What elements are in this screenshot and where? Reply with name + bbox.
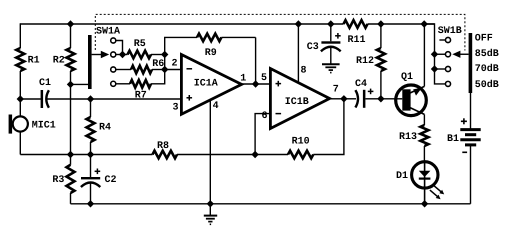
label C2 plus — [95, 170, 101, 172]
svg-text:5: 5 — [261, 73, 267, 84]
switch SW1A contact 3 — [111, 67, 116, 72]
svg-text:7: 7 — [333, 85, 339, 96]
capacitor C3 — [321, 41, 340, 43]
node pin8 rail junction — [295, 20, 302, 27]
wire Q1 emitter to rail — [423, 24, 425, 86]
microphone MIC1 — [13, 116, 28, 131]
label B1 minus — [462, 151, 467, 153]
node R4-C2 junction — [87, 151, 94, 158]
wire feedback riser right — [255, 37, 257, 84]
wire top supply rail — [20, 23, 343, 25]
wire SW1A contact2 to R5 — [116, 54, 127, 56]
resistor R3 — [67, 165, 75, 193]
svg-text:Q1: Q1 — [401, 72, 413, 83]
wire SW1B arrow to bar — [460, 53, 469, 55]
svg-text:R11: R11 — [348, 35, 366, 46]
node R2 rail junction — [67, 20, 74, 27]
transistor Q1 — [396, 85, 427, 116]
wire Q1 collector lead — [423, 114, 425, 125]
switch SW1A contact 4 — [111, 81, 116, 86]
wire SW1B contact 2 wire — [435, 53, 446, 55]
resistor R5 — [128, 51, 152, 59]
wire feedback riser left — [164, 37, 166, 54]
svg-text:C2: C2 — [105, 175, 117, 186]
wire R2 junction to SW1A bar — [71, 83, 89, 85]
wire IC1B pin 6 left — [255, 114, 270, 155]
svg-text:85dB: 85dB — [475, 48, 499, 60]
wire SW1A contact3 to R6 — [116, 69, 131, 71]
switch SW1B contact 2 — [445, 52, 450, 57]
wire R1 bottom lead — [19, 71, 21, 99]
wire R12 bottom lead — [380, 71, 382, 99]
svg-text:R13: R13 — [399, 132, 417, 143]
resistor R10 — [288, 151, 313, 159]
switch SW1A contact 1 — [111, 38, 116, 43]
svg-text:4: 4 — [213, 101, 219, 112]
op-amp IC1A — [181, 55, 241, 115]
wire R7 right lead up — [151, 55, 165, 84]
svg-text:R8: R8 — [157, 141, 169, 152]
svg-text:3: 3 — [173, 103, 179, 114]
wire SW1A bar to arrow — [92, 54, 102, 56]
resistor R13 — [420, 125, 428, 146]
resistor R12 — [377, 48, 385, 71]
wire R5 right lead — [151, 54, 165, 56]
svg-text:1: 1 — [240, 74, 246, 85]
svg-text:2: 2 — [172, 59, 178, 70]
wire R8 to pin6 node — [177, 154, 255, 156]
svg-text:IC1A: IC1A — [194, 79, 218, 90]
resistor R7 — [130, 80, 151, 88]
wire IC1B output — [329, 98, 344, 100]
switch SW1B wiper arrow — [452, 51, 460, 58]
node SW1B contact2 junction — [431, 51, 438, 58]
node C1-R1-MIC1 junction — [17, 95, 24, 102]
node R4 top junction — [87, 95, 94, 102]
capacitor C1 — [41, 90, 44, 108]
battery B1 — [460, 128, 480, 131]
wire MIC1 top lead — [19, 99, 21, 116]
node IC1A output junction — [252, 80, 259, 87]
wire IC1A output to IC1B pin5 — [241, 83, 271, 85]
switch SW1A wiper arrow — [101, 51, 109, 59]
wire C4 to Q1 base — [365, 98, 402, 100]
wire IC1A pin 4 to ground rail — [209, 100, 211, 204]
wire SW1A contact4 to R7 — [116, 83, 130, 85]
wire feedback top right — [221, 36, 255, 38]
switch SW1B contact 1 stub — [439, 39, 445, 41]
node IC1B output junction — [340, 95, 347, 102]
op-amp IC1A minus input mark — [187, 68, 193, 70]
svg-text:R5: R5 — [134, 39, 146, 50]
wire C1 left lead — [20, 98, 41, 100]
svg-text:70dB: 70dB — [475, 63, 499, 75]
wire SW1B bar to B1 — [470, 92, 472, 129]
node SW1B contact3 junction — [431, 65, 438, 72]
node C4-R12-Q1 junction — [377, 95, 384, 102]
label C3 plus — [335, 35, 341, 37]
resistor R9 — [197, 34, 221, 42]
op-amp IC1B — [270, 69, 329, 129]
wire pin6 node to R10 — [255, 154, 288, 156]
wire bottom ground rail — [71, 203, 471, 205]
svg-text:C1: C1 — [39, 78, 51, 89]
node C3 rail junction — [327, 20, 334, 27]
node C2 bottom junction — [87, 200, 94, 207]
wire B1 bottom lead — [470, 145, 472, 204]
ground symbol C3 — [322, 63, 340, 65]
node SW1A pos1/pos2 junction — [119, 51, 126, 58]
switch SW1A wiper bar — [88, 35, 92, 89]
wire R4 top lead — [90, 99, 92, 117]
wire IC1B pin 8 to rail — [297, 24, 299, 82]
capacitor C4 — [355, 90, 358, 107]
LED D1 — [424, 161, 426, 204]
node R5 right junction — [161, 51, 168, 58]
wire C2 top lead — [90, 155, 92, 178]
svg-text:OFF: OFF — [475, 34, 493, 45]
svg-text:6: 6 — [262, 111, 268, 122]
node R12 top junction — [377, 20, 384, 27]
resistor R6 — [131, 66, 152, 74]
wire R4 bottom lead — [90, 142, 92, 155]
svg-text:8: 8 — [301, 66, 307, 77]
ground symbol — [209, 204, 211, 216]
switch SW1B wiper bar — [469, 33, 473, 93]
wire R2 junction down to R3 — [70, 84, 72, 164]
LED D1 emission arrows — [434, 185, 442, 192]
node R6 right junction — [161, 66, 168, 73]
wire feedback top left — [164, 36, 197, 38]
wire R3 bottom lead — [70, 193, 72, 204]
wire R6 junction to IC1A pin 2 — [165, 69, 182, 71]
op-amp IC1A plus input mark — [187, 97, 193, 99]
node SW1B rail junction — [421, 20, 428, 27]
dashed mechanical link SW1A-SW1B — [95, 14, 465, 50]
svg-text:R4: R4 — [99, 123, 111, 134]
wire C3 top lead — [330, 24, 332, 41]
svg-text:SW1B: SW1B — [438, 26, 462, 37]
svg-text:R7: R7 — [135, 91, 147, 102]
switch SW1B contact 4 — [445, 81, 450, 86]
node R8-R10-pin6 junction — [251, 151, 258, 158]
wire top rail right of R11 — [368, 23, 435, 25]
svg-text:IC1B: IC1B — [285, 97, 309, 108]
resistor R4 — [87, 117, 95, 142]
svg-text:SW1A: SW1A — [96, 27, 120, 38]
op-amp IC1B plus input mark — [276, 83, 282, 85]
svg-text:MIC1: MIC1 — [32, 121, 56, 132]
node R2 bottom junction — [67, 81, 74, 88]
wire R10 right riser to pin 7 — [313, 99, 344, 155]
svg-text:C4: C4 — [355, 79, 367, 90]
capacitor C2 — [81, 177, 100, 179]
resistor R2 — [67, 48, 75, 71]
switch SW1B contact 1 — [445, 37, 450, 42]
svg-text:R12: R12 — [356, 56, 374, 67]
wire R1 top lead — [19, 23, 21, 48]
resistor R8 — [153, 151, 178, 159]
wire R12 top lead — [380, 24, 382, 48]
wire R2 top lead — [70, 24, 72, 48]
wire SW1B contact 3 wire — [435, 68, 446, 70]
op-amp IC1B minus input mark — [276, 113, 282, 115]
label B1 plus — [461, 120, 467, 122]
svg-text:R2: R2 — [53, 56, 65, 67]
wire C2 bottom lead — [90, 184, 92, 204]
wire pin7 to C4 — [344, 98, 356, 100]
label C4 plus — [368, 90, 374, 92]
resistor R1 — [16, 48, 24, 71]
wire C1 to IC1A pin 3 — [47, 98, 182, 100]
svg-text:B1: B1 — [447, 134, 459, 145]
resistor R11 — [344, 20, 368, 28]
svg-text:R1: R1 — [28, 56, 40, 67]
node D1 bottom junction — [421, 200, 428, 207]
wire SW1A contact1 hook — [116, 41, 122, 55]
svg-text:R10: R10 — [292, 137, 310, 148]
wire C3 bottom lead — [330, 48, 332, 64]
switch SW1B contact 3 — [445, 66, 450, 71]
wire SW1B feed — [424, 24, 445, 84]
switch SW1A contact 2 (pole position) — [111, 52, 116, 57]
svg-text:C3: C3 — [307, 42, 319, 53]
wire MIC1 bottom lead — [19, 132, 21, 155]
node R3 top junction — [67, 151, 74, 158]
wire mic bottom line — [20, 154, 152, 156]
svg-text:D1: D1 — [396, 171, 408, 182]
wire R6 right lead — [152, 69, 165, 71]
svg-text:50dB: 50dB — [475, 79, 499, 91]
node ground junction — [207, 200, 214, 207]
wire R13 to D1 — [423, 146, 425, 161]
svg-text:R3: R3 — [52, 175, 64, 186]
svg-text:R9: R9 — [205, 48, 217, 59]
wire R2 bottom lead — [70, 71, 72, 84]
